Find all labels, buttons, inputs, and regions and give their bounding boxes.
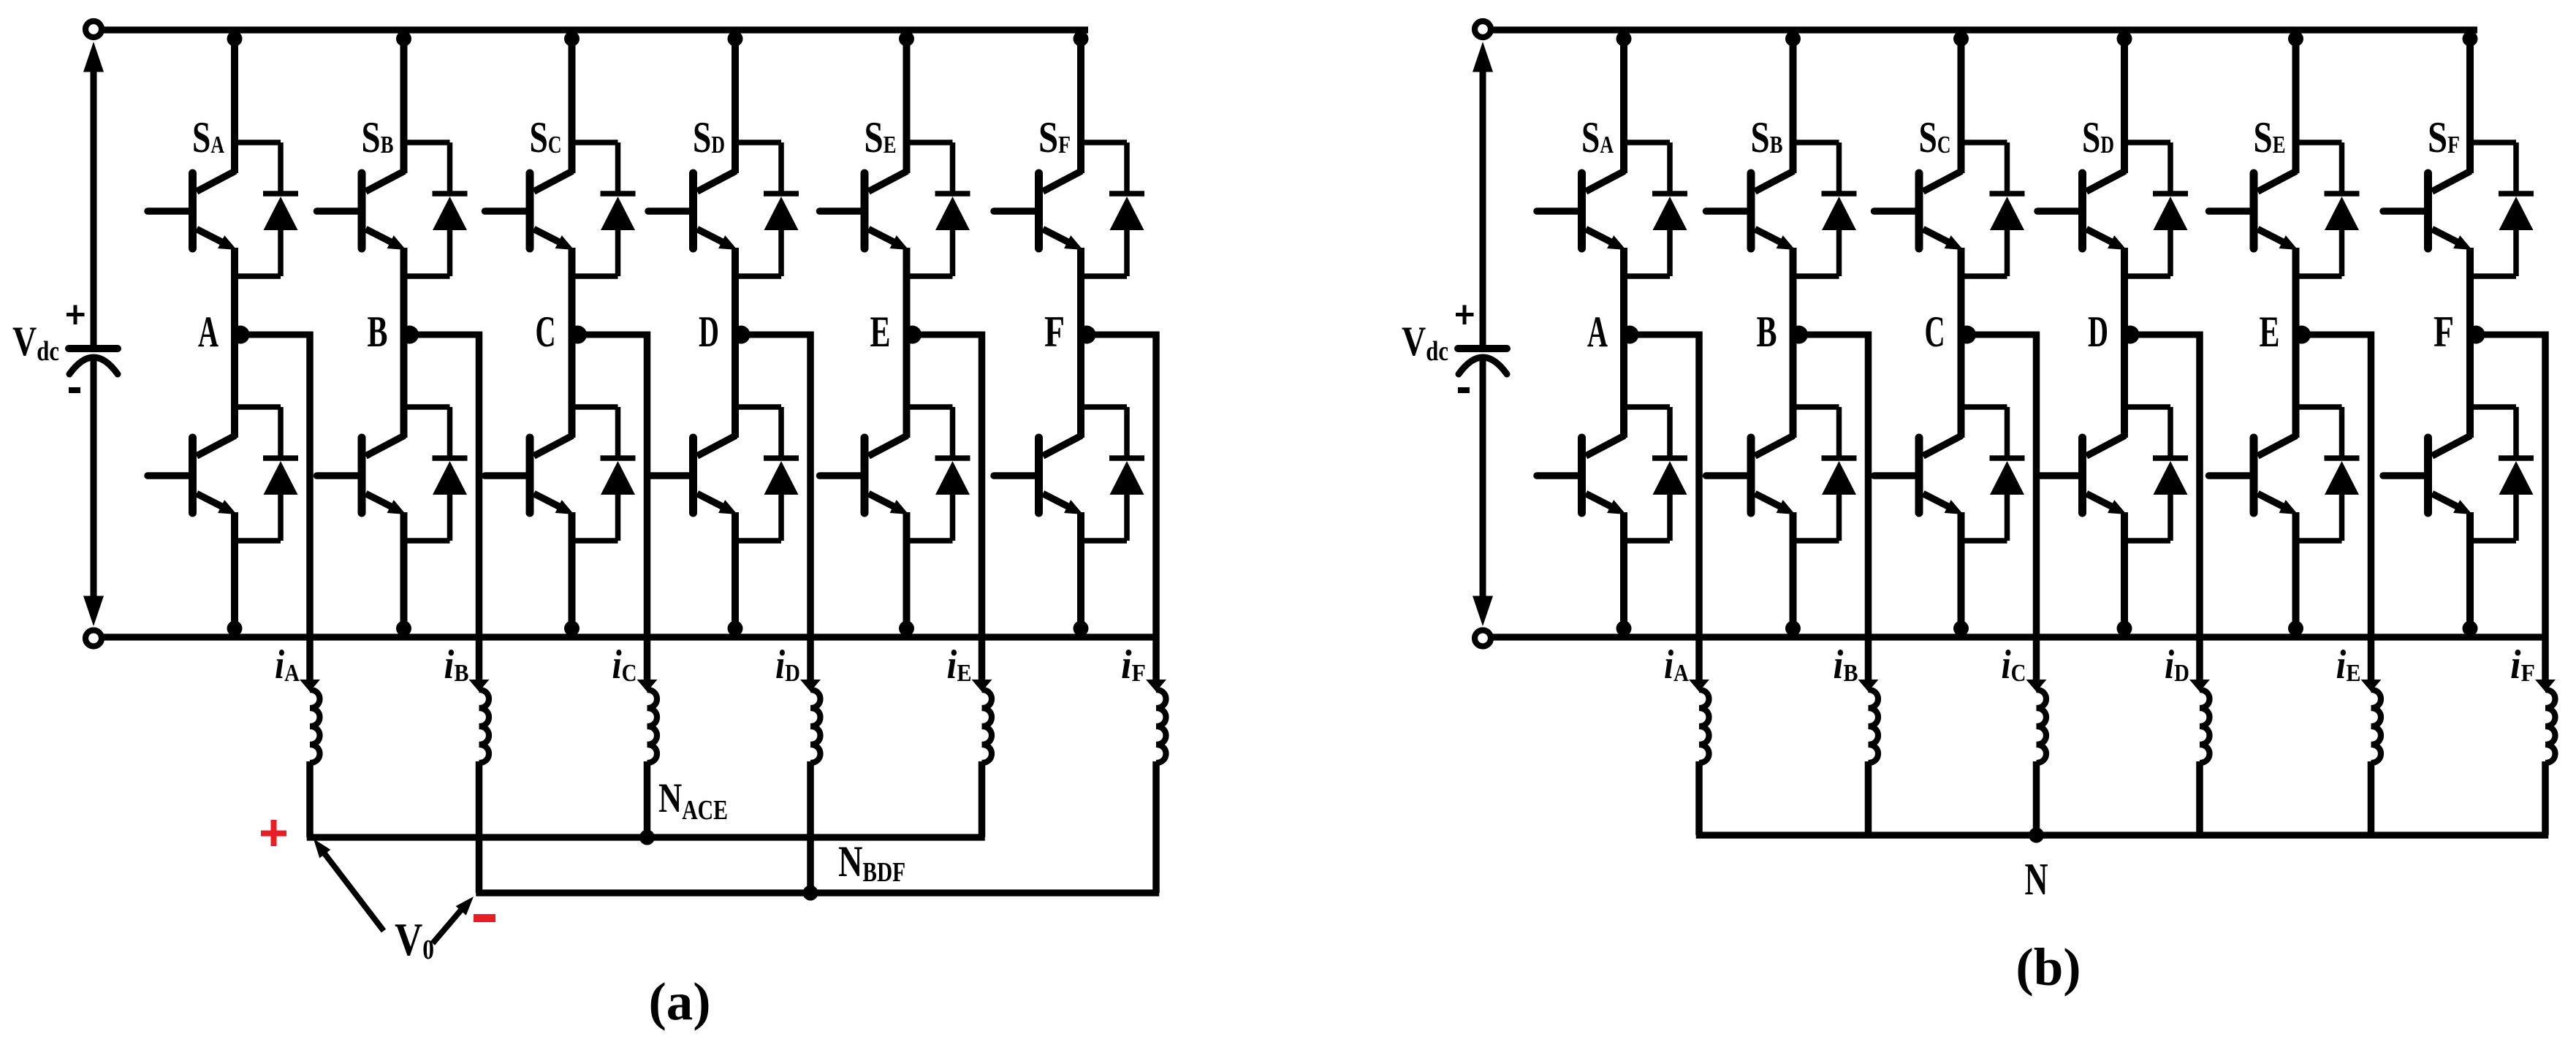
freewheeling diode lower leg F (b): [2470, 407, 2534, 541]
label node D (b): [2088, 308, 2108, 356]
wire: inductor B to neutral bus (NBDF) (a): [476, 761, 483, 893]
DC positive rail (b): [1492, 26, 2477, 33]
freewheeling diode upper leg E: SE (b): [2296, 142, 2360, 276]
wire: lower emitter to negative rail leg E (b): [2292, 512, 2300, 637]
current arrow iB (a): [469, 680, 490, 692]
svg-text:E: E: [2260, 308, 2280, 356]
wire: node E to lower switch (b): [2292, 332, 2300, 438]
node F dot (a): [1078, 326, 1096, 344]
label NBDF (a): [838, 837, 905, 888]
wire: upper emitter to node B (a): [400, 248, 408, 332]
wire: upper emitter to node D (b): [2121, 248, 2128, 332]
junction dot top of leg C (a): [564, 31, 580, 47]
wire: lower emitter to negative rail leg D (b): [2121, 512, 2128, 637]
capacitor Vdc straight plate (b): [1458, 345, 1507, 352]
freewheeling diode lower leg B (b): [1793, 407, 1857, 541]
DC source negative terminal (b): [1475, 631, 1491, 647]
label node E (a): [870, 308, 891, 356]
wire: node B to lower switch (a): [400, 332, 408, 438]
DC positive rail (a): [103, 26, 1088, 33]
wire: top rail to upper switch SB (b): [1790, 30, 1797, 173]
wire: inductor A to neutral bus (NACE) (a): [306, 761, 314, 837]
neutral bus N (b): [1696, 832, 2549, 838]
junction dot top of leg A (b): [1616, 31, 1632, 47]
freewheeling diode upper leg D: SD (a): [735, 142, 799, 276]
capacitor Vdc straight plate (a): [69, 345, 118, 352]
wire: top rail to upper switch SF (b): [2466, 30, 2474, 173]
wire: node F to output column (b): [2470, 332, 2545, 685]
current arrow iC (a): [637, 680, 658, 692]
V0 arrow to NACE plus end (a): [314, 839, 384, 931]
svg-text:F: F: [1044, 308, 1065, 356]
svg-text:A: A: [1587, 308, 1608, 356]
IGBT transistor lower leg F (b): [2383, 435, 2472, 514]
current arrow iA (a): [300, 680, 320, 692]
freewheeling diode upper leg B: SB (b): [1793, 142, 1857, 276]
freewheeling diode lower leg B (a): [404, 407, 468, 541]
junction dot top of leg B (b): [1785, 31, 1801, 47]
current arrow iE (b): [2361, 680, 2382, 692]
IGBT transistor lower leg B (b): [1706, 435, 1796, 514]
DC source positive terminal (b): [1475, 21, 1491, 37]
label SF (a): [1038, 113, 1071, 161]
wire: node D to lower switch (a): [732, 332, 739, 438]
node C dot (b): [1958, 326, 1976, 344]
junction dot top of leg B (a): [396, 31, 411, 47]
Vdc measuring arrow (b): [1473, 42, 1493, 626]
wire: upper emitter to node A (a): [231, 248, 238, 332]
label V0 (a): [395, 913, 434, 965]
label SD (b): [2082, 113, 2114, 161]
V0 arrow to NBDF minus end (a): [433, 897, 474, 943]
label iE (b): [2336, 642, 2361, 688]
inductor winding phase D (b): [2200, 690, 2210, 763]
wire: node F to lower switch (b): [2466, 332, 2474, 438]
label iC (b): [2002, 642, 2026, 688]
IGBT transistor upper leg B: SB (b): [1706, 171, 1796, 250]
freewheeling diode lower leg F (a): [1081, 407, 1144, 541]
junction dot bottom of leg A (b): [1616, 621, 1632, 636]
junction dot top of leg E (b): [2288, 31, 2303, 47]
wire: upper emitter to node F (b): [2466, 248, 2474, 332]
wire: lower emitter to negative rail leg F (b): [2466, 512, 2474, 637]
label SA (a): [192, 113, 224, 161]
capacitor Vdc curved plate (b): [1459, 357, 1507, 374]
svg-text:B: B: [368, 308, 388, 356]
label SC (a): [530, 113, 562, 161]
IGBT transistor upper leg A: SA (b): [1537, 171, 1626, 250]
wire: node B to output column (a): [404, 332, 479, 685]
freewheeling diode lower leg E (b): [2296, 407, 2360, 541]
capacitor Vdc curved plate (a): [69, 357, 118, 374]
node D dot (b): [2121, 326, 2140, 344]
label iD (a): [775, 642, 800, 688]
plus polarity mark Vdc (a): [67, 305, 85, 325]
freewheeling diode lower leg D (a): [735, 407, 799, 541]
IGBT transistor upper leg E: SE (b): [2209, 171, 2298, 250]
plus polarity mark Vdc (b): [1456, 305, 1474, 325]
current arrow iB (b): [1858, 680, 1879, 692]
wire: node E to output column (b): [2296, 332, 2371, 685]
label SE (b): [2254, 113, 2286, 161]
IGBT transistor upper leg C: SC (b): [1874, 171, 1964, 250]
label SF (b): [2428, 113, 2460, 161]
IGBT transistor lower leg C (a): [485, 435, 574, 514]
IGBT transistor upper leg B: SB (a): [317, 171, 406, 250]
label SC (b): [1919, 113, 1951, 161]
label SB (a): [362, 113, 394, 161]
junction dot top of leg C (b): [1953, 31, 1969, 47]
node E dot (a): [903, 326, 922, 344]
current arrow iD (a): [800, 680, 821, 692]
inductor winding phase B (b): [1869, 690, 1879, 763]
svg-text:B: B: [1757, 308, 1777, 356]
wire: top rail to upper switch SA (a): [231, 30, 238, 173]
node D dot (a): [732, 326, 751, 344]
svg-text:(a): (a): [648, 972, 710, 1031]
wire: node B to output column (b): [1793, 332, 1869, 685]
junction dot bottom of leg E (a): [899, 621, 914, 636]
wire: node E to output column (a): [907, 332, 982, 685]
node A dot (b): [1621, 326, 1639, 344]
freewheeling diode upper leg F: SF (b): [2470, 142, 2534, 276]
inductor winding phase F (a): [1156, 690, 1166, 763]
label Vdc (b): [1402, 319, 1448, 367]
wire: upper emitter to node B (b): [1790, 248, 1797, 332]
wire: node A to lower switch (b): [1620, 332, 1627, 438]
IGBT transistor lower leg B (a): [317, 435, 406, 514]
node B dot (b): [1790, 326, 1808, 344]
svg-text:E: E: [870, 308, 891, 356]
wire: node C to lower switch (a): [569, 332, 576, 438]
wire: upper emitter to node E (b): [2292, 248, 2300, 332]
inductor winding phase F (b): [2545, 690, 2556, 763]
IGBT transistor lower leg A (b): [1537, 435, 1626, 514]
caption (b): [2015, 937, 2081, 997]
label N (b): [2025, 855, 2048, 905]
junction dot top of leg D (a): [728, 31, 743, 47]
label node B (a): [368, 308, 388, 356]
current arrow iE (a): [972, 680, 992, 692]
junction dot bottom of leg D (a): [728, 621, 743, 636]
IGBT transistor lower leg E (b): [2209, 435, 2298, 514]
IGBT transistor lower leg E (a): [820, 435, 909, 514]
wire: top rail to upper switch SC (b): [1958, 30, 1965, 173]
DC source positive terminal (a): [86, 21, 102, 37]
wire: lower emitter to negative rail leg C (a): [569, 512, 576, 637]
junction dot phase C on NACE (a): [639, 830, 655, 845]
label node A (b): [1587, 308, 1608, 356]
wire: inductor C to neutral bus (NACE) (a): [644, 761, 651, 837]
wire: upper emitter to node D (a): [732, 248, 739, 332]
label node C (b): [1925, 308, 1945, 356]
label node A (a): [198, 308, 219, 356]
junction dot bottom of leg D (b): [2117, 621, 2132, 636]
wire: node E to lower switch (a): [903, 332, 911, 438]
junction dot bottom of leg B (a): [396, 621, 411, 636]
wire: top rail to upper switch SD (b): [2121, 30, 2128, 173]
node A dot (a): [232, 326, 250, 344]
junction dot bottom of leg B (b): [1785, 621, 1801, 636]
label SD (a): [693, 113, 725, 161]
current arrow iF (b): [2535, 680, 2556, 692]
current arrow iF (a): [1146, 680, 1166, 692]
wire: inductor E to neutral bus N (b): [2368, 761, 2375, 835]
label iA (a): [275, 642, 300, 688]
node B dot (a): [400, 326, 419, 344]
wire: lower emitter to negative rail leg C (b): [1958, 512, 1965, 637]
caption (a): [648, 972, 710, 1031]
inductor winding phase E (a): [982, 690, 992, 763]
wire: node C to lower switch (b): [1958, 332, 1965, 438]
IGBT transistor lower leg A (a): [148, 435, 237, 514]
label SE (a): [865, 113, 897, 161]
IGBT transistor upper leg F: SF (a): [994, 171, 1083, 250]
svg-text:C: C: [536, 308, 556, 356]
inductor winding phase A (b): [1699, 690, 1709, 763]
junction dot top of leg F (a): [1074, 31, 1089, 47]
wire: node A to output column (a): [235, 332, 310, 685]
neutral bus NACE (a): [307, 834, 985, 840]
IGBT transistor upper leg D: SD (b): [2037, 171, 2127, 250]
wire: node C to output column (a): [572, 332, 647, 685]
freewheeling diode lower leg C (a): [572, 407, 636, 541]
DC negative rail (b): [1492, 634, 2549, 640]
junction dot bottom of leg A (a): [227, 621, 243, 636]
red plus terminal of V0 (a): [261, 820, 286, 846]
junction dot phase C on N (b): [2029, 828, 2044, 843]
wire: top rail to upper switch SD (a): [732, 30, 739, 173]
freewheeling diode lower leg D (b): [2124, 407, 2188, 541]
svg-text:(b): (b): [2015, 937, 2081, 997]
freewheeling diode lower leg A (b): [1624, 407, 1687, 541]
wire: lower emitter to negative rail leg B (b): [1790, 512, 1797, 637]
wire: top rail to upper switch SE (b): [2292, 30, 2300, 173]
IGBT transistor upper leg F: SF (b): [2383, 171, 2472, 250]
wire: inductor D to neutral bus (NBDF) (a): [807, 761, 814, 893]
wire: upper emitter to node C (a): [569, 248, 576, 332]
wire: inductor A to neutral bus N (b): [1695, 761, 1703, 835]
wire: node A to output column (b): [1624, 332, 1699, 685]
label iE (a): [947, 642, 972, 688]
wire: inductor D to neutral bus N (b): [2196, 761, 2203, 835]
junction dot bottom of leg C (b): [1953, 621, 1969, 636]
wire: top rail to upper switch SF (a): [1077, 30, 1084, 173]
node C dot (a): [569, 326, 587, 344]
current arrow iA (b): [1689, 680, 1709, 692]
freewheeling diode upper leg E: SE (a): [907, 142, 970, 276]
freewheeling diode lower leg A (a): [235, 407, 298, 541]
label node B (b): [1757, 308, 1777, 356]
minus polarity mark Vdc (b): [1458, 387, 1470, 393]
label node C (a): [536, 308, 556, 356]
current arrow iD (b): [2189, 680, 2210, 692]
node F dot (b): [2467, 326, 2485, 344]
wire: lower emitter to negative rail leg A (a): [231, 512, 238, 637]
DC negative rail (a): [103, 634, 1160, 640]
label iC (a): [612, 642, 637, 688]
freewheeling diode upper leg A: SA (a): [235, 142, 298, 276]
minus polarity mark Vdc (a): [69, 387, 80, 393]
freewheeling diode upper leg B: SB (a): [404, 142, 468, 276]
wire: upper emitter to node A (b): [1620, 248, 1627, 332]
wire: lower emitter to negative rail leg F (a): [1077, 512, 1084, 637]
junction dot top of leg A (a): [227, 31, 243, 47]
neutral bus NBDF (a): [476, 889, 1159, 896]
wire: lower emitter to negative rail leg B (a): [400, 512, 408, 637]
wire: top rail to upper switch SB (a): [400, 30, 408, 173]
label iA (b): [1664, 642, 1689, 688]
Vdc measuring arrow (a): [83, 42, 104, 626]
label node E (b): [2260, 308, 2280, 356]
DC source negative terminal (a): [86, 631, 102, 647]
junction dot bottom of leg E (b): [2288, 621, 2303, 636]
label node F (b): [2433, 308, 2454, 356]
wire: inductor F to neutral bus N (b): [2542, 761, 2549, 835]
wire: top rail to upper switch SC (a): [569, 30, 576, 173]
inductor winding phase A (a): [310, 690, 320, 763]
wire: inductor C to neutral bus N (b): [2033, 761, 2040, 835]
IGBT transistor lower leg D (a): [648, 435, 737, 514]
wire: top rail to upper switch SE (a): [903, 30, 911, 173]
wire: node C to output column (b): [1961, 332, 2037, 685]
freewheeling diode upper leg A: SA (b): [1624, 142, 1687, 276]
label iB (b): [1834, 642, 1858, 688]
IGBT transistor lower leg D (b): [2037, 435, 2127, 514]
wire: upper emitter to node C (b): [1958, 248, 1965, 332]
inductor winding phase B (a): [479, 690, 490, 763]
freewheeling diode lower leg E (a): [907, 407, 970, 541]
svg-text:D: D: [2088, 308, 2108, 356]
IGBT transistor lower leg C (b): [1874, 435, 1964, 514]
freewheeling diode lower leg C (b): [1961, 407, 2025, 541]
IGBT transistor upper leg C: SC (a): [485, 171, 574, 250]
current arrow iC (b): [2026, 680, 2047, 692]
freewheeling diode upper leg F: SF (a): [1081, 142, 1144, 276]
label SA (b): [1581, 113, 1614, 161]
wire: node F to lower switch (a): [1077, 332, 1084, 438]
inductor winding phase C (a): [647, 690, 658, 763]
freewheeling diode upper leg D: SD (b): [2124, 142, 2188, 276]
wire: lower emitter to negative rail leg D (a): [732, 512, 739, 637]
junction dot top of leg E (a): [899, 31, 914, 47]
junction dot bottom of leg C (a): [564, 621, 580, 636]
wire: top rail to upper switch SA (b): [1620, 30, 1627, 173]
svg-text:A: A: [198, 308, 219, 356]
junction dot bottom of leg F (b): [2463, 621, 2478, 636]
inductor winding phase C (b): [2037, 690, 2047, 763]
wire: lower emitter to negative rail leg A (b): [1620, 512, 1627, 637]
wire: inductor B to neutral bus N (b): [1865, 761, 1872, 835]
junction dot top of leg F (b): [2463, 31, 2478, 47]
wire: node D to output column (a): [735, 332, 810, 685]
label SB (b): [1751, 113, 1783, 161]
wire: upper emitter to node F (a): [1077, 248, 1084, 332]
wire: node B to lower switch (b): [1790, 332, 1797, 438]
wire: upper emitter to node E (a): [903, 248, 911, 332]
inductor winding phase D (a): [810, 690, 821, 763]
svg-text:N: N: [2025, 855, 2048, 905]
label NACE (a): [658, 775, 728, 826]
freewheeling diode upper leg C: SC (b): [1961, 142, 2025, 276]
IGBT transistor upper leg A: SA (a): [148, 171, 237, 250]
red minus terminal of V0 (a): [474, 914, 495, 922]
wire: node F to output column (a): [1081, 332, 1156, 685]
junction dot top of leg D (b): [2117, 31, 2132, 47]
wire: node A to lower switch (a): [231, 332, 238, 438]
junction dot phase D on NBDF (a): [803, 886, 818, 901]
wire: node D to lower switch (b): [2121, 332, 2128, 438]
inductor winding phase E (b): [2371, 690, 2382, 763]
label iF (b): [2510, 642, 2535, 688]
wire: lower emitter to negative rail leg E (a): [903, 512, 911, 637]
wire: inductor F to neutral bus (NBDF) (a): [1152, 761, 1160, 893]
label node D (a): [699, 308, 719, 356]
IGBT transistor upper leg E: SE (a): [820, 171, 909, 250]
label iF (a): [1121, 642, 1146, 688]
svg-text:D: D: [699, 308, 719, 356]
label iD (b): [2165, 642, 2189, 688]
wire: inductor E to neutral bus (NACE) (a): [979, 761, 986, 837]
IGBT transistor lower leg F (a): [994, 435, 1083, 514]
IGBT transistor upper leg D: SD (a): [648, 171, 737, 250]
wire: node D to output column (b): [2124, 332, 2200, 685]
svg-text:C: C: [1925, 308, 1945, 356]
junction dot bottom of leg F (a): [1074, 621, 1089, 636]
label iB (a): [444, 642, 469, 688]
label Vdc (a): [12, 319, 59, 367]
svg-text:F: F: [2433, 308, 2454, 356]
freewheeling diode upper leg C: SC (a): [572, 142, 636, 276]
node E dot (b): [2292, 326, 2311, 344]
label node F (a): [1044, 308, 1065, 356]
